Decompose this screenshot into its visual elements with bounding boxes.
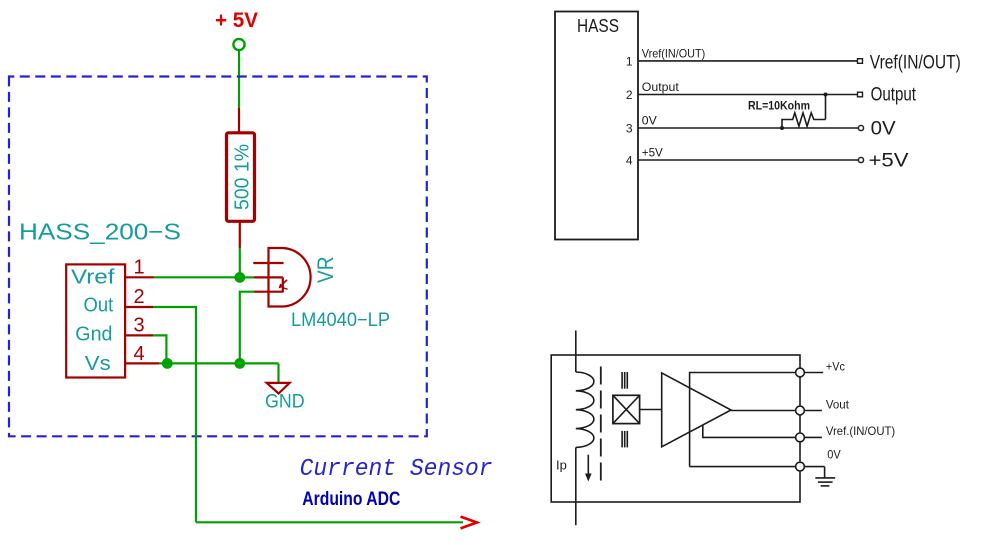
terminal +Vc <box>796 368 824 377</box>
label LM4040-LP <box>291 310 390 331</box>
label Vout <box>826 398 850 412</box>
terminal label 0V <box>871 119 896 140</box>
pin 4 net label <box>642 145 663 159</box>
svg-text:1: 1 <box>134 257 145 279</box>
current direction arrow <box>585 455 592 482</box>
svg-text:Ip: Ip <box>556 457 567 472</box>
primary winding coil <box>576 372 594 447</box>
magnetic core dashed line <box>600 367 602 481</box>
resistor R1 top lead <box>238 108 240 133</box>
earth ground symbol <box>815 467 835 486</box>
label HASS <box>577 16 619 36</box>
coupling marks top <box>622 372 627 389</box>
pin 3 line 0V <box>638 127 858 129</box>
pin 4 terminal circle <box>858 157 863 162</box>
coupling marks bottom <box>622 431 627 448</box>
terminal Vref <box>796 433 822 442</box>
hall element box <box>613 395 640 423</box>
pin name Vref <box>71 267 115 289</box>
pin number 3 <box>134 315 145 337</box>
pin 1 terminal square <box>858 59 863 64</box>
svg-text:HASS_200−S: HASS_200−S <box>19 219 181 245</box>
0V line <box>690 466 800 468</box>
svg-text:+Vc: +Vc <box>826 360 845 374</box>
svg-text:Arduino ADC: Arduino ADC <box>302 489 400 510</box>
label HASS_200-S <box>19 219 181 245</box>
pin number 4 <box>134 343 145 365</box>
wire bottom run to arrow <box>196 521 463 523</box>
terminal 0V <box>796 462 825 471</box>
arrow head (Arduino ADC direction) <box>461 517 478 529</box>
svg-text:Gnd: Gnd <box>75 323 112 345</box>
wire VR anode down to net <box>240 292 254 364</box>
pin 1 number <box>626 55 633 69</box>
svg-text:+5V: +5V <box>642 145 663 159</box>
terminal label Vref(IN/OUT) <box>870 52 961 73</box>
pin 4 number <box>626 154 633 168</box>
wire gnd drop <box>277 363 279 382</box>
wire pin4 net to gnd drop <box>159 362 279 364</box>
node C junction <box>234 358 245 369</box>
svg-text:1: 1 <box>626 55 633 69</box>
pin 3 stub <box>125 334 153 336</box>
pin 2 terminal square <box>858 92 863 97</box>
svg-text:Vref(IN/OUT): Vref(IN/OUT) <box>870 52 961 73</box>
svg-text:0V: 0V <box>871 119 896 140</box>
svg-text:2: 2 <box>626 88 633 102</box>
pin 4 stub <box>125 362 159 364</box>
pin number 2 <box>134 286 145 308</box>
pin 1 line Vref <box>638 60 858 62</box>
svg-text:0V: 0V <box>827 448 841 462</box>
pin name Gnd <box>75 323 112 345</box>
sensor internal diagram outer box <box>551 355 800 502</box>
dashed boundary box <box>9 77 427 437</box>
label Vref.(IN/OUT) <box>826 424 895 438</box>
terminal label Output <box>871 84 917 105</box>
terminal label +5V <box>869 151 909 172</box>
Vref line <box>703 425 800 438</box>
svg-text:Vref: Vref <box>71 267 115 289</box>
svg-text:4: 4 <box>626 154 633 168</box>
wire hall to amp <box>640 409 662 411</box>
pin 3 number <box>626 122 633 136</box>
resistor R1 body 500 1% <box>227 133 255 222</box>
pin 3 net label <box>642 113 657 127</box>
HASS pinout box <box>555 12 638 240</box>
pin 4 line +5V <box>638 159 858 161</box>
svg-text:Vref.(IN/OUT): Vref.(IN/OUT) <box>826 424 895 438</box>
svg-text:Out: Out <box>84 294 114 316</box>
pin 1 stub <box>125 276 154 278</box>
svg-text:+5V: +5V <box>869 151 909 172</box>
ground symbol GND <box>267 383 290 394</box>
pin number 1 <box>134 257 145 279</box>
label Current Sensor <box>300 456 493 483</box>
pin name Out <box>84 294 114 316</box>
svg-text:4: 4 <box>134 343 145 365</box>
primary conductor bottom <box>575 447 577 525</box>
op-amp triangle <box>662 373 731 447</box>
svg-text:VR: VR <box>313 257 338 284</box>
pin 2 number <box>626 88 633 102</box>
svg-text:LM4040−LP: LM4040−LP <box>291 310 390 331</box>
diode VR body LM4040 <box>253 248 310 307</box>
pin 3 terminal circle <box>858 125 863 130</box>
label Ip <box>556 457 567 472</box>
svg-text:Output: Output <box>642 80 680 94</box>
wire resistor to node A <box>239 248 241 277</box>
svg-text:Current Sensor: Current Sensor <box>300 456 493 483</box>
component U1 body <box>66 264 125 377</box>
wire pin2 to vertical <box>153 307 196 522</box>
svg-text:3: 3 <box>626 122 633 136</box>
primary conductor top <box>575 331 577 373</box>
svg-text:Output: Output <box>871 84 917 105</box>
Vout line <box>731 410 800 412</box>
pin 2 stub <box>125 306 153 308</box>
label 0V <box>827 448 841 462</box>
terminal Vout <box>796 406 822 415</box>
wire from +5V terminal down <box>238 51 240 109</box>
label +Vc <box>826 360 845 374</box>
power label +5V <box>215 9 258 32</box>
node B junction <box>162 358 173 369</box>
node A junction <box>234 272 245 283</box>
pin 2 line Output <box>638 94 858 96</box>
label GND <box>265 391 305 412</box>
svg-text:Vs: Vs <box>85 353 111 375</box>
svg-text:+ 5V: + 5V <box>215 9 258 32</box>
svg-text:0V: 0V <box>642 113 657 127</box>
svg-text:500 1%: 500 1% <box>232 144 254 210</box>
svg-text:3: 3 <box>134 315 145 337</box>
wire pin1 to node A <box>154 276 240 278</box>
label RL=10Kohm <box>748 101 810 113</box>
resistor R1 bottom lead <box>239 221 241 248</box>
+Vc supply line <box>690 373 800 467</box>
load resistor RL circuit <box>780 93 828 131</box>
pin 2 net label <box>642 80 680 94</box>
svg-text:Vref(IN/OUT): Vref(IN/OUT) <box>642 46 705 60</box>
svg-text:HASS: HASS <box>577 16 619 36</box>
label Arduino ADC <box>302 489 400 510</box>
svg-text:Vout: Vout <box>826 398 850 412</box>
svg-text:GND: GND <box>265 391 305 412</box>
svg-text:2: 2 <box>134 286 145 308</box>
svg-text:RL=10Kohm: RL=10Kohm <box>748 101 810 113</box>
pin 1 net label <box>642 46 705 60</box>
pin name Vs <box>85 353 111 375</box>
supply terminal circle <box>233 39 244 50</box>
label VR <box>313 257 338 284</box>
wire node A to VR cathode <box>240 276 254 278</box>
wire pin3 down to pin4 net <box>153 335 166 363</box>
